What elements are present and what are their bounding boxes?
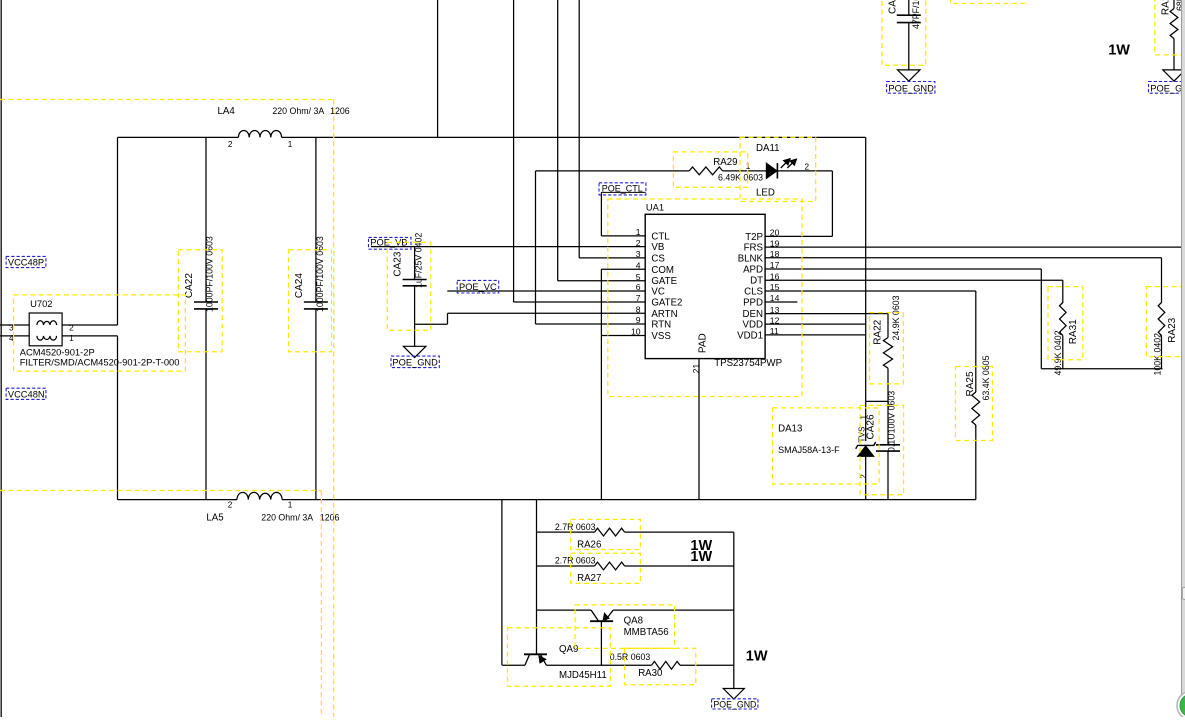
svg-text:3: 3 bbox=[636, 249, 641, 259]
svg-text:4: 4 bbox=[636, 261, 641, 271]
svg-text:63.4K 0805: 63.4K 0805 bbox=[981, 355, 991, 400]
svg-text:8: 8 bbox=[636, 305, 641, 315]
svg-text:GATE2: GATE2 bbox=[651, 298, 682, 309]
svg-text:RA27: RA27 bbox=[577, 573, 601, 584]
svg-text:LA5: LA5 bbox=[206, 512, 223, 523]
svg-text:APD: APD bbox=[743, 265, 763, 276]
svg-text:11: 11 bbox=[770, 326, 779, 336]
svg-text:2: 2 bbox=[69, 323, 74, 332]
svg-text:14: 14 bbox=[770, 293, 780, 303]
svg-text:220 Ohm/ 3A: 220 Ohm/ 3A bbox=[272, 106, 324, 116]
svg-text:VCC48N: VCC48N bbox=[8, 389, 45, 399]
svg-text:POE_GND: POE_GND bbox=[392, 358, 438, 368]
svg-text:DA11: DA11 bbox=[756, 143, 780, 154]
svg-text:24.9K 0603: 24.9K 0603 bbox=[891, 295, 901, 340]
svg-text:PPD: PPD bbox=[743, 298, 763, 309]
svg-text:VC: VC bbox=[651, 287, 664, 298]
svg-text:FILTER/SMD/ACM4520-901-2P-T-00: FILTER/SMD/ACM4520-901-2P-T-000 bbox=[20, 356, 180, 367]
svg-text:RA26: RA26 bbox=[577, 539, 601, 550]
svg-text:VCC48P: VCC48P bbox=[8, 258, 44, 268]
svg-text:1: 1 bbox=[69, 334, 74, 343]
svg-text:1W: 1W bbox=[690, 549, 712, 565]
svg-text:CLS: CLS bbox=[744, 287, 763, 298]
svg-text:2.7R 0603: 2.7R 0603 bbox=[555, 522, 596, 532]
svg-text:1000PF/100V 0603: 1000PF/100V 0603 bbox=[315, 236, 325, 312]
svg-text:CA23: CA23 bbox=[392, 251, 403, 276]
svg-text:POE_GND: POE_GND bbox=[888, 83, 934, 93]
svg-text:47PF/100V: 47PF/100V bbox=[911, 0, 921, 29]
svg-text:POE_CTL: POE_CTL bbox=[602, 184, 643, 194]
svg-text:15: 15 bbox=[770, 282, 780, 292]
svg-text:VSS: VSS bbox=[651, 331, 671, 342]
svg-text:6: 6 bbox=[636, 282, 641, 292]
svg-text:7: 7 bbox=[636, 293, 641, 303]
svg-text:RA30: RA30 bbox=[638, 668, 663, 679]
svg-text:CS: CS bbox=[651, 253, 665, 264]
svg-text:TPS23754PWP: TPS23754PWP bbox=[714, 358, 782, 369]
svg-text:2: 2 bbox=[805, 162, 810, 171]
svg-text:1000PF/100V 0603: 1000PF/100V 0603 bbox=[205, 236, 215, 312]
svg-text:VDD: VDD bbox=[743, 320, 763, 331]
svg-text:19: 19 bbox=[770, 238, 780, 248]
svg-text:220 Ohm/ 3A: 220 Ohm/ 3A bbox=[261, 512, 313, 522]
svg-text:MJD45H11: MJD45H11 bbox=[559, 670, 607, 681]
svg-text:21: 21 bbox=[691, 364, 701, 374]
svg-text:UA1: UA1 bbox=[646, 202, 664, 213]
svg-text:CA25: CA25 bbox=[888, 0, 899, 14]
svg-text:BLNK: BLNK bbox=[738, 253, 764, 264]
svg-text:18: 18 bbox=[770, 249, 780, 259]
svg-text:SMAJ58A-13-F: SMAJ58A-13-F bbox=[778, 445, 840, 455]
svg-text:2: 2 bbox=[636, 238, 641, 248]
svg-text:13: 13 bbox=[770, 305, 780, 315]
svg-text:1206: 1206 bbox=[320, 512, 340, 522]
svg-text:0.5R 0603: 0.5R 0603 bbox=[610, 652, 651, 662]
svg-text:16: 16 bbox=[770, 271, 780, 281]
svg-text:RA25: RA25 bbox=[965, 371, 976, 396]
svg-text:1: 1 bbox=[636, 227, 641, 237]
svg-text:POE_GND: POE_GND bbox=[1150, 83, 1185, 93]
svg-text:VDD1: VDD1 bbox=[737, 330, 763, 341]
svg-text:12: 12 bbox=[770, 315, 780, 325]
svg-text:T2P: T2P bbox=[745, 232, 763, 243]
svg-text:100K 0402: 100K 0402 bbox=[1153, 333, 1163, 376]
svg-text:TVS: TVS bbox=[858, 426, 867, 442]
svg-text:RA22: RA22 bbox=[873, 319, 884, 344]
svg-text:QA8: QA8 bbox=[624, 616, 643, 627]
svg-text:1206: 1206 bbox=[330, 106, 350, 116]
svg-text:POE_GND: POE_GND bbox=[713, 699, 756, 709]
svg-text:1: 1 bbox=[288, 501, 293, 510]
svg-text:DA13: DA13 bbox=[778, 423, 802, 434]
svg-text:RA29: RA29 bbox=[713, 157, 737, 168]
svg-text:CTL: CTL bbox=[651, 231, 670, 242]
svg-text:LA4: LA4 bbox=[218, 106, 236, 117]
svg-text:9: 9 bbox=[636, 315, 641, 325]
svg-text:DEN: DEN bbox=[743, 309, 763, 320]
svg-text:PAD: PAD bbox=[697, 333, 708, 353]
svg-text:1W: 1W bbox=[1108, 43, 1130, 59]
svg-text:1uF/25V 0402: 1uF/25V 0402 bbox=[414, 233, 424, 288]
svg-text:2: 2 bbox=[228, 140, 233, 149]
svg-text:CA24: CA24 bbox=[294, 273, 305, 298]
svg-text:49.9K 0402: 49.9K 0402 bbox=[1053, 330, 1063, 375]
svg-text:1: 1 bbox=[288, 140, 293, 149]
svg-text:0.1U100V 0603: 0.1U100V 0603 bbox=[887, 391, 897, 452]
svg-text:2.7R 0603: 2.7R 0603 bbox=[555, 556, 596, 566]
svg-text:U702: U702 bbox=[30, 298, 52, 309]
svg-text:5: 5 bbox=[636, 272, 641, 282]
svg-text:FRS: FRS bbox=[744, 243, 764, 254]
svg-text:1W: 1W bbox=[746, 649, 768, 665]
svg-text:POE_VC: POE_VC bbox=[459, 282, 497, 292]
svg-text:17: 17 bbox=[770, 260, 780, 270]
svg-text:RA31: RA31 bbox=[1068, 319, 1079, 344]
svg-text:20: 20 bbox=[770, 228, 780, 238]
svg-text:RA23: RA23 bbox=[1167, 317, 1178, 342]
svg-text:LED: LED bbox=[756, 188, 775, 199]
svg-text:MMBTA56: MMBTA56 bbox=[624, 627, 669, 638]
svg-text:2: 2 bbox=[228, 501, 233, 510]
svg-text:RTN: RTN bbox=[651, 320, 671, 331]
svg-text:COM: COM bbox=[651, 265, 674, 276]
svg-text:RA19: RA19 bbox=[1161, 0, 1172, 15]
svg-text:VB: VB bbox=[651, 242, 664, 253]
svg-text:10: 10 bbox=[631, 327, 641, 337]
svg-text:DT: DT bbox=[750, 276, 763, 287]
svg-text:ARTN: ARTN bbox=[651, 309, 677, 320]
